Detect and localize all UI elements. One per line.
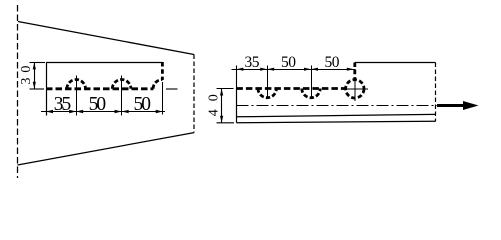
svg-text:35: 35 — [245, 54, 260, 71]
svg-text:35: 35 — [54, 94, 72, 115]
svg-text:50: 50 — [134, 94, 152, 115]
40 dim extension ticks — [217, 88, 234, 90]
centre cross vertical, notch 2 / extension — [121, 76, 123, 116]
left view centerline (vertical dashed) — [17, 5, 19, 178]
notch arc 1 (right view, bulge down) — [258, 89, 276, 98]
dim text 30 (rotated) — [19, 66, 34, 85]
step vertical thick dashed (right view) — [353, 63, 356, 80]
slot right edge (thick dashed) — [161, 62, 164, 80]
direction arrow at right — [437, 101, 479, 110]
notch arc 2 (thick dashed, bulge up) — [112, 80, 131, 89]
right edge (hidden dashed, right view) — [435, 63, 437, 122]
dim text 50 (left view, second) — [134, 94, 152, 115]
left view top edge (sloped) — [18, 22, 194, 55]
bottom edge (right view) — [237, 121, 436, 122]
30 dim extension ticks — [30, 62, 46, 64]
centre cross vertical, notch 1 / extension — [76, 76, 78, 116]
slot bottom hidden line (thick dashed) — [46, 87, 153, 90]
slot left edge + extension line — [46, 63, 48, 116]
arrows left view dims — [46, 110, 163, 113]
svg-text:50: 50 — [281, 54, 296, 71]
dimension line 35/50/50 (right view) — [232, 69, 356, 71]
top edge right part (right view) — [355, 62, 436, 64]
centre cross horizontal, slot end — [166, 88, 178, 90]
svg-text:50: 50 — [325, 54, 340, 71]
arrows right view dims — [236, 68, 353, 71]
slot end circle (thick dashed, right view) — [346, 80, 364, 98]
notch arc 2 (right view, bulge down) — [302, 89, 320, 98]
svg-text:50: 50 — [89, 94, 107, 115]
left view bottom edge (sloped) — [18, 133, 195, 165]
slot top edge — [46, 62, 162, 64]
middle sloped line (right view) — [237, 114, 436, 116]
dim text 50 (left view, first) — [89, 94, 107, 115]
extension line at left edge (right view) — [236, 66, 238, 89]
centre cross vertical, slot end / extension — [162, 82, 164, 115]
dim text 50 (right view, first) — [281, 54, 296, 71]
centre cross horizontal, slot end (right view) — [342, 88, 369, 90]
svg-text:40: 40 — [206, 94, 221, 116]
notch arc 1 (thick dashed, bulge up) — [67, 80, 86, 89]
extension/cross line notch 2 (right view) — [311, 66, 313, 99]
centreline dash-dot (right view) — [237, 105, 444, 107]
left view right edge (hidden dashed) — [193, 55, 195, 133]
dim text 40 (rotated) — [206, 94, 221, 116]
slot end corner arc (thick dashed quarter) — [153, 80, 162, 89]
dimension line 35/50/50 (left view) — [41, 111, 165, 113]
dim text 35 (right view) — [245, 54, 260, 71]
30 dimension line with arrows — [34, 63, 36, 89]
hidden keyway line (thick dashed, right view) — [236, 87, 345, 90]
extension/cross line notch 1 (right view) — [267, 66, 269, 99]
left edge (right view) — [236, 89, 238, 123]
centre cross vertical, slot end (right view) — [354, 80, 356, 101]
svg-text:30: 30 — [19, 66, 34, 85]
dim text 35 (left view) — [54, 94, 72, 115]
dim text 50 (right view, second) — [325, 54, 340, 71]
40 dimension line with arrows — [221, 89, 223, 123]
